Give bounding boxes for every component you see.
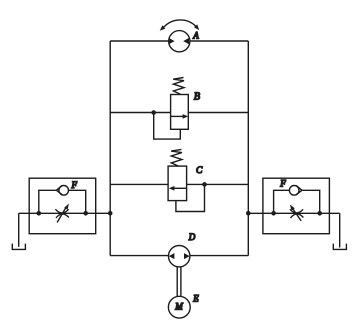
wire check valve branch left (39, 190, 57, 213)
wire top line (110, 40, 248, 42)
wire check valve branch left right side (69, 190, 86, 213)
label D (188, 232, 196, 242)
tank T2 (333, 244, 346, 250)
label F right (279, 179, 286, 189)
spring of valve C (171, 149, 182, 166)
wire check valve branch right (274, 190, 290, 213)
adjustable restrictor left (55, 204, 69, 223)
oscillation arrow above A (160, 20, 200, 31)
svg-text:E: E (192, 294, 199, 304)
hydraulic motor A (169, 31, 190, 52)
svg-text:D: D (188, 232, 196, 242)
label A (192, 31, 199, 41)
label M (174, 302, 183, 312)
label C (196, 166, 203, 176)
node right vertical junction (246, 211, 251, 216)
check valve F right (289, 186, 302, 196)
relief valve B (171, 95, 189, 130)
node right box right junction (317, 211, 322, 216)
svg-text:C: C (196, 166, 203, 176)
label F left (71, 180, 78, 190)
hydraulic pump D (169, 246, 190, 267)
svg-text:B: B (194, 92, 200, 103)
wire left flow-control line (19, 212, 111, 214)
label E (192, 294, 199, 304)
label B (194, 92, 200, 103)
svg-text:F: F (279, 179, 286, 189)
node left box left junction (37, 211, 42, 216)
svg-text:A: A (192, 31, 199, 41)
wire right flow-control line (248, 212, 339, 214)
flow control enclosure left (29, 178, 96, 234)
wire bottom pump line (110, 255, 248, 257)
wire valve C line (110, 183, 248, 185)
wire right tank drop (339, 213, 341, 247)
flow control enclosure right (263, 178, 330, 234)
wire check valve branch right right side (302, 190, 320, 213)
node right box left junction (271, 211, 276, 216)
check valve F left (56, 186, 68, 196)
electric motor M (168, 296, 190, 318)
svg-text:M: M (174, 302, 183, 312)
wire left tank drop (18, 213, 20, 247)
node left box right junction (83, 211, 88, 216)
spring of valve B (173, 78, 184, 95)
adjustable restrictor right (290, 205, 304, 221)
tank T1 (12, 244, 25, 250)
node B pilot junction (151, 110, 156, 115)
relief valve C (168, 166, 187, 201)
svg-text:F: F (71, 180, 78, 190)
wire left vertical (109, 41, 111, 256)
wire right vertical (247, 41, 249, 256)
wire valve C pilot line (176, 184, 205, 211)
node C pilot junction (202, 182, 207, 187)
wire valve B line (110, 112, 248, 114)
node left vertical junction (108, 211, 113, 216)
wire valve B pilot line (154, 113, 181, 140)
shaft between D and M (177, 267, 181, 297)
